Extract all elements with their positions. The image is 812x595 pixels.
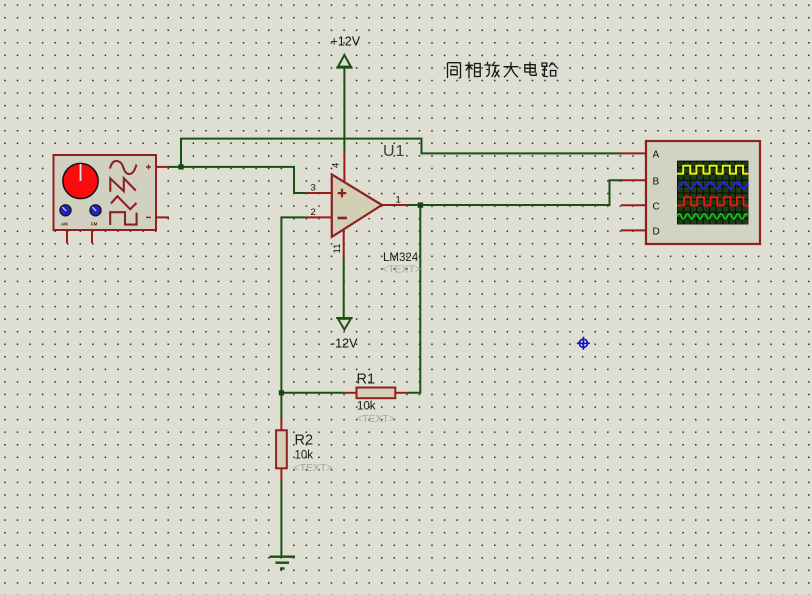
pin 1 output stub xyxy=(382,204,409,206)
G1 blue knob AM xyxy=(60,205,71,216)
svg-text:AM: AM xyxy=(61,222,68,227)
op-amp U1 pin4 stub xyxy=(343,153,345,182)
svg-text:LM324: LM324 xyxy=(383,252,419,264)
大 xyxy=(504,62,519,77)
wire +12V to pin4 xyxy=(343,68,345,153)
svg-text:-12V: -12V xyxy=(331,337,358,351)
G1 blue knob FM xyxy=(90,205,101,216)
svg-text:3: 3 xyxy=(311,183,316,194)
op-amp plus input mark xyxy=(338,189,347,198)
G1 pin + stub xyxy=(156,166,169,168)
G1 bottom pin stubs xyxy=(67,230,92,243)
svg-text:FM: FM xyxy=(91,222,98,227)
junction J3 xyxy=(418,202,423,207)
svg-text:4: 4 xyxy=(331,163,342,168)
wire: R1 right up to output junction J3 xyxy=(408,205,420,393)
pin 2 stub xyxy=(306,216,332,218)
G1 waveform glyph sine xyxy=(110,161,137,174)
G1 red knob xyxy=(63,163,98,198)
scope channel C pin stub xyxy=(621,204,646,206)
放 xyxy=(484,62,499,78)
resistor R2 bottom stub xyxy=(280,468,282,480)
G1 waveform glyph square xyxy=(110,212,136,225)
scope channel B pin stub xyxy=(621,179,646,181)
wire: R2 bottom to ground xyxy=(280,481,282,557)
power +12V arrow symbol xyxy=(336,55,352,68)
op-amp minus input mark xyxy=(338,217,347,220)
scope trace A yellow square wave xyxy=(677,166,748,174)
svg-text:R2: R2 xyxy=(295,433,314,449)
wire: J1 up and top run to scope A xyxy=(181,139,622,167)
wire: inverting node up to pin 2 xyxy=(281,217,306,419)
svg-text:10k: 10k xyxy=(295,450,314,462)
svg-text:1: 1 xyxy=(396,195,401,206)
svg-text:2: 2 xyxy=(311,207,316,218)
wire: siggen output to junction J1 xyxy=(168,166,181,168)
scope trace B blue sine xyxy=(677,182,748,189)
路 xyxy=(542,62,557,77)
scope channel D pin stub xyxy=(621,229,646,231)
svg-text:<TEXT>: <TEXT> xyxy=(382,264,421,276)
junction J2 xyxy=(279,390,284,395)
scope channel A pin stub xyxy=(621,152,646,154)
svg-text:C: C xyxy=(653,202,660,213)
相 xyxy=(465,62,480,79)
signal generator G1 body xyxy=(54,155,157,230)
svg-text:<TEXT>: <TEXT> xyxy=(294,462,333,474)
wire: J3 right then up to scope B xyxy=(420,180,621,205)
svg-text:+12V: +12V xyxy=(331,35,361,49)
scope trace D green sine xyxy=(677,214,747,219)
svg-text:D: D xyxy=(653,227,660,238)
svg-text:U1: U1 xyxy=(383,143,405,160)
wire pin11 to -12V arrow xyxy=(343,257,345,317)
svg-text:10k: 10k xyxy=(357,401,376,413)
pin 11 stub xyxy=(343,230,345,258)
wire: J2 to R1 left xyxy=(281,392,345,394)
wire: J1 right to pin 3 xyxy=(181,167,306,193)
resistor R1 body xyxy=(357,388,396,399)
pin 3 stub xyxy=(306,192,332,194)
resistor R1 right stub xyxy=(395,392,408,394)
svg-text:11: 11 xyxy=(332,244,343,254)
junction J1 xyxy=(178,164,183,169)
cursor crosshair marker xyxy=(577,337,590,350)
resistor R1 left stub xyxy=(345,392,357,394)
op-amp U1 triangle xyxy=(332,174,382,237)
svg-text:A: A xyxy=(653,150,660,161)
同 xyxy=(448,63,461,78)
G1 pin - stub xyxy=(156,216,169,218)
G1 waveform glyph triangle xyxy=(111,196,137,209)
G1 waveform glyph sawtooth xyxy=(110,178,136,192)
svg-text:<TEXT>: <TEXT> xyxy=(356,413,395,425)
resistor R2 body xyxy=(276,430,287,468)
G1 plus mark xyxy=(146,165,151,170)
power -12V arrow symbol xyxy=(336,318,352,330)
ground symbol xyxy=(270,557,296,569)
svg-text:B: B xyxy=(653,177,660,188)
title text 同相放大电路 xyxy=(448,62,557,79)
resistor R2 top stub xyxy=(280,419,282,430)
svg-text:R1: R1 xyxy=(357,372,376,388)
wire: output pin1 to J3 xyxy=(409,204,421,206)
电 xyxy=(525,62,536,76)
G1 minus mark xyxy=(146,216,151,218)
oscilloscope body xyxy=(646,141,760,244)
scope trace C red square wave xyxy=(677,197,748,205)
scope screen xyxy=(677,161,748,225)
